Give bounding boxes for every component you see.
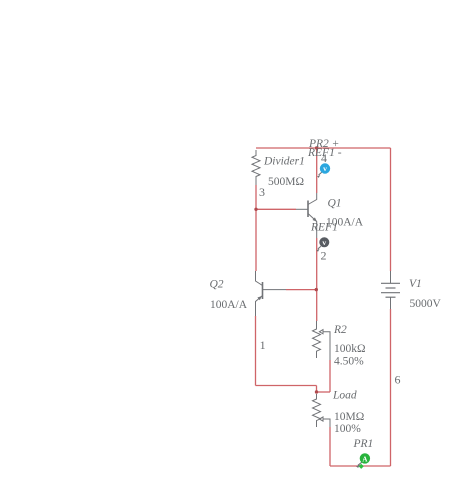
svg-text:500MΩ: 500MΩ [268, 176, 304, 188]
svg-text:Q1: Q1 [328, 198, 342, 210]
svg-text:2: 2 [321, 249, 327, 263]
svg-text:V1: V1 [409, 278, 422, 290]
svg-text:1: 1 [260, 338, 266, 352]
svg-text:3: 3 [259, 185, 265, 199]
svg-text:100%: 100% [334, 423, 361, 435]
svg-text:Q2: Q2 [210, 278, 224, 290]
svg-text:v: v [323, 164, 327, 173]
svg-text:6: 6 [395, 372, 401, 386]
svg-text:4: 4 [321, 151, 327, 165]
svg-text:100A/A: 100A/A [210, 299, 248, 311]
svg-text:5000V: 5000V [410, 298, 442, 310]
svg-text:R2: R2 [333, 324, 347, 336]
svg-text:A: A [362, 455, 367, 463]
svg-text:100kΩ: 100kΩ [334, 343, 366, 355]
svg-text:REF1: REF1 [310, 222, 338, 234]
svg-text:PR1: PR1 [353, 438, 374, 450]
svg-text:4.50%: 4.50% [334, 356, 364, 368]
svg-text:Load: Load [332, 390, 357, 402]
svg-text:10MΩ: 10MΩ [334, 411, 364, 423]
svg-text:v: v [322, 238, 326, 247]
svg-text:Divider1: Divider1 [263, 156, 305, 168]
